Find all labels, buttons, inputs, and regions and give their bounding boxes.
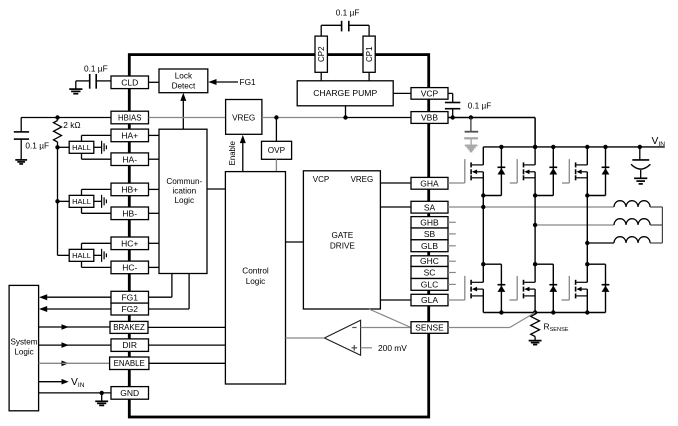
transistor low-side B (NMOS) <box>517 264 535 312</box>
svg-text:HB-: HB- <box>122 208 137 218</box>
svg-text:GHC: GHC <box>420 256 439 266</box>
svg-text:CP1: CP1 <box>365 46 374 62</box>
pin HA- <box>111 153 149 166</box>
block System Logic <box>9 285 38 410</box>
node junction hall2 tap <box>55 199 59 203</box>
svg-text:VREG: VREG <box>351 175 374 184</box>
svg-text:HA+: HA+ <box>121 131 138 141</box>
wire ENABLE left with arrow (gray) <box>39 361 110 367</box>
pin HB- <box>111 207 149 220</box>
wire GHA gate lead (gray) <box>448 182 465 184</box>
transistor high-side A (NMOS) <box>465 147 484 196</box>
svg-text:HALL: HALL <box>72 251 91 260</box>
label VIN right <box>652 136 666 148</box>
svg-text:Control: Control <box>242 266 269 275</box>
hall supply bus vertical <box>57 147 59 255</box>
svg-text:CLD: CLD <box>121 77 138 87</box>
node junction low diode B bottom <box>551 310 555 314</box>
pin GHB <box>411 217 448 228</box>
wire control logic to gate drive <box>286 241 304 243</box>
op-amp current comparator <box>324 320 360 355</box>
wire comparator output to control logic <box>286 337 325 339</box>
inductor motor coil phase C <box>614 237 650 243</box>
wire charge pump to VCP pin <box>393 92 411 94</box>
svg-text:ication: ication <box>172 187 196 196</box>
pin VBB <box>411 112 448 124</box>
diode high-side B <box>549 147 557 196</box>
wire ENABLE to control logic <box>149 362 226 364</box>
stub wire right of GHB <box>448 221 456 223</box>
hall sensor 2 (HB) with sideways ground <box>58 189 112 213</box>
pin GLA <box>411 294 448 306</box>
svg-text:CP2: CP2 <box>317 46 326 62</box>
wire HA+ to communication logic <box>149 134 160 136</box>
svg-text:VCP: VCP <box>421 89 439 99</box>
node junction rail-chargepump <box>343 115 347 119</box>
wire SENSE to sense node (gray) <box>448 313 535 328</box>
pin VCP <box>411 88 448 100</box>
phase A vertical wire <box>482 196 484 265</box>
svg-text:Detect: Detect <box>172 82 196 91</box>
svg-text:BRAKEZ: BRAKEZ <box>113 323 145 332</box>
svg-text:2 kΩ: 2 kΩ <box>63 120 80 130</box>
svg-text:GHB: GHB <box>420 217 439 227</box>
phase C vertical wire <box>586 196 588 265</box>
pin CP2 (rotated label) <box>315 36 327 72</box>
svg-text:Commun-: Commun- <box>166 177 202 186</box>
block Lock Detect <box>159 69 208 93</box>
pin GLB <box>411 240 448 252</box>
svg-text:CHARGE PUMP: CHARGE PUMP <box>313 88 377 98</box>
svg-text:Logic: Logic <box>246 277 266 286</box>
ground (HBIAS cap) <box>15 160 27 164</box>
pin HBIAS <box>111 111 149 124</box>
stub wire right of GLB <box>448 245 456 247</box>
wire HA- to communication logic <box>149 158 160 160</box>
transistor low-side C (NMOS) <box>569 264 587 312</box>
svg-text:GND: GND <box>120 388 139 398</box>
pin HA+ <box>111 129 149 142</box>
hall sensor 3 (HC) with sideways ground <box>58 243 112 267</box>
wire HC- to communication logic <box>149 266 160 268</box>
transistor high-side B (NMOS) <box>517 147 535 196</box>
wire FG2 to communication logic <box>149 274 190 310</box>
svg-text:GLA: GLA <box>421 295 438 305</box>
chip outline (thick boundary of driver IC) <box>129 55 428 417</box>
pin HC- <box>111 261 149 274</box>
diode low-side B <box>549 264 557 312</box>
svg-text:FG1: FG1 <box>240 77 257 87</box>
reference 200 mV at comparator plus <box>361 343 408 353</box>
svg-text:GLB: GLB <box>421 241 438 251</box>
phase B vertical wire <box>534 196 536 265</box>
wire SA bus to motor (gray) <box>448 206 614 208</box>
wire communication logic to control logic <box>207 188 225 190</box>
capacitor 0.1uF at HBIAS <box>14 118 49 160</box>
stub wire right of GLC <box>448 283 456 285</box>
svg-text:FG2: FG2 <box>121 304 138 314</box>
svg-text:GATE: GATE <box>332 231 354 240</box>
node junction rail-OVP <box>274 115 278 119</box>
VBB top rail of bridge <box>483 146 665 148</box>
block Communication Logic <box>159 129 207 273</box>
wire VBB to bridge <box>448 118 535 147</box>
svg-text:HBIAS: HBIAS <box>118 113 141 122</box>
node junction hall1 tap <box>55 145 59 149</box>
wire BRAKEZ to control logic <box>148 326 225 328</box>
svg-text:DIR: DIR <box>122 340 137 350</box>
wire HB- to communication logic <box>149 212 160 214</box>
transistor low-side A (NMOS) <box>465 264 484 312</box>
svg-text:HC-: HC- <box>122 263 137 273</box>
wire SC to motor <box>587 242 614 244</box>
wire DIR to control logic <box>149 344 226 346</box>
svg-text:VREG: VREG <box>232 113 255 122</box>
pin SENSE <box>411 322 448 334</box>
svg-text:0.1 µF: 0.1 µF <box>468 101 492 111</box>
svg-text:VCP: VCP <box>313 175 329 184</box>
pin CP1 (rotated label) <box>363 36 375 72</box>
gray rail VREG to charge pump junction <box>262 117 346 119</box>
diode high-side A <box>498 147 506 196</box>
pin GHC <box>411 256 448 267</box>
stub gate low-side B (gray) <box>509 299 517 301</box>
svg-text:GLC: GLC <box>421 280 438 290</box>
resistor RSENSE with label and ground <box>529 313 569 345</box>
wire FG1 to communication logic <box>149 274 172 298</box>
svg-text:HC+: HC+ <box>121 238 138 248</box>
node junction phase C source on rail <box>585 310 589 314</box>
node junction low diode C tap <box>585 262 589 266</box>
svg-text:0.1 µF: 0.1 µF <box>25 141 49 151</box>
svg-text:OVP: OVP <box>268 146 286 155</box>
pin GND <box>111 387 149 400</box>
capacitor 0.1uF at CLD with ground <box>76 64 111 90</box>
svg-text:0.1 µF: 0.1 µF <box>84 64 108 74</box>
node junction diode A top <box>499 145 503 149</box>
diode low-side A <box>498 264 506 312</box>
capacitor VBB decoupling (gray) with ground <box>464 118 478 152</box>
pin HB+ <box>111 183 149 196</box>
pin FG2 <box>111 303 149 315</box>
block CHARGE PUMP <box>297 81 393 106</box>
inductor motor coil phase A <box>614 201 650 207</box>
svg-text:HA-: HA- <box>122 154 137 164</box>
wire VIN input with arrow and label <box>39 377 85 389</box>
svg-text:200 mV: 200 mV <box>378 343 407 353</box>
wire HBIAS left rail <box>21 117 111 119</box>
svg-text:System: System <box>11 337 38 346</box>
wire to low diode A <box>483 263 501 265</box>
wire comparator minus to SENSE <box>361 327 411 329</box>
diode low-side C <box>602 264 610 312</box>
stub wire right of SC <box>448 272 456 274</box>
wire to low diode C <box>587 263 605 265</box>
wire rail to OVP <box>275 118 277 142</box>
ground (CLD cap) <box>69 89 82 94</box>
svg-text:SB: SB <box>424 229 436 239</box>
node junction gray cap on VBB <box>469 115 473 119</box>
stub wire right of GHC <box>448 260 456 262</box>
node junction low diode A tap <box>481 262 485 266</box>
stub gate high-side B (gray) <box>510 182 517 184</box>
node junction low diode B tap <box>533 262 537 266</box>
wire DIR left with arrow <box>39 342 111 348</box>
node junction VBB feed <box>533 145 537 149</box>
node junction HBIAS-resistor <box>55 115 59 119</box>
svg-text:0.1 µF: 0.1 µF <box>336 7 360 17</box>
wire to low diode B <box>535 263 553 265</box>
wire charge pump bottom to VREG rail <box>345 106 347 118</box>
pin CLD <box>111 76 149 89</box>
svg-text:Logic: Logic <box>14 348 33 357</box>
wire CLD to lock detect <box>149 81 160 83</box>
node junction VCP cap on VBB <box>451 115 455 119</box>
capacitor 0.1uF between CP1 and CP2 with wires <box>321 7 369 36</box>
pin ENABLE <box>110 357 149 370</box>
pin HC+ <box>111 237 149 250</box>
svg-text:FG1: FG1 <box>121 292 138 302</box>
wire CP1 to charge pump <box>368 72 370 81</box>
block GATE DRIVE with VCP VREG labels <box>303 171 380 309</box>
wire GLA gate lead (gray) <box>448 299 465 301</box>
arrow communication logic to lock detect <box>180 93 186 130</box>
capacitor 0.1uF VCP to VBB <box>445 93 491 117</box>
pin DIR <box>111 339 149 352</box>
wire gate drive to SA <box>380 206 411 208</box>
inductor motor coil phase B <box>614 219 650 225</box>
pin SC <box>411 267 448 279</box>
svg-text:DRIVE: DRIVE <box>330 241 356 250</box>
phase node A <box>481 193 501 197</box>
block VREG <box>226 100 262 135</box>
svg-text:GHA: GHA <box>420 178 439 188</box>
motor star connection wires <box>650 207 662 243</box>
stub gate high-side C (gray) <box>562 182 569 184</box>
svg-text:Enable: Enable <box>228 141 237 165</box>
wire FG1 to system logic with arrow <box>39 294 111 300</box>
node junction gnd tap <box>100 391 104 395</box>
node junction SB on phase B <box>533 223 537 227</box>
phase node C <box>585 193 605 197</box>
wire HB+ to communication logic <box>149 188 160 190</box>
node junction low diode A bottom <box>499 310 503 314</box>
block Control Logic <box>225 172 285 384</box>
svg-text:SENSE: SENSE <box>415 323 444 333</box>
wire gate drive to GHA <box>380 182 411 184</box>
enable arrow control logic to VREG with rotated label <box>228 135 246 172</box>
gray rail HBIAS to VREG <box>149 117 226 119</box>
hall sensor 1 (HA) with sideways ground <box>58 135 112 159</box>
svg-text:HALL: HALL <box>72 143 91 152</box>
svg-text:VBB: VBB <box>421 113 438 123</box>
node junction SC on phase C <box>585 241 589 245</box>
node junction SA on phase A <box>481 205 485 209</box>
node junction diode B top <box>551 145 555 149</box>
wire rail to VBB pin <box>346 117 412 119</box>
wire FG1 into lock detect with arrow <box>208 77 256 87</box>
pin GLC <box>411 279 448 291</box>
wire SB to motor (gray) <box>535 224 614 226</box>
wire GND to system logic <box>39 392 111 394</box>
node junction phase B drain on rail <box>533 145 537 149</box>
svg-text:SC: SC <box>424 268 436 278</box>
pin SB <box>411 228 448 240</box>
svg-text:ENABLE: ENABLE <box>114 359 145 368</box>
bridge bottom rail <box>483 312 605 314</box>
block OVP <box>262 141 292 159</box>
capacitor VIN bulk (polarized) with ground <box>631 147 650 184</box>
wire BRAKEZ left with arrow <box>39 324 110 330</box>
svg-text:Lock: Lock <box>175 72 193 81</box>
wire OVP to control logic (gray) <box>275 159 277 171</box>
stub wire right of SB <box>448 233 456 235</box>
pin GHA <box>411 177 448 189</box>
ground (GND pin) <box>95 393 108 406</box>
pin BRAKEZ <box>110 321 148 333</box>
pin SA <box>411 201 448 213</box>
wire FG2 to system logic with arrow <box>39 306 111 312</box>
wire CP2 to charge pump <box>320 72 322 81</box>
svg-text:SA: SA <box>424 202 436 212</box>
svg-text:HB+: HB+ <box>121 185 138 195</box>
svg-text:Logic: Logic <box>175 196 195 205</box>
resistor 2 kOhm <box>54 118 81 148</box>
node junction sense node <box>533 310 537 314</box>
pin FG1 <box>111 291 149 303</box>
node junction VIN cap <box>638 145 642 149</box>
stub gate low-side C (gray) <box>562 299 570 301</box>
node junction diode C top <box>603 145 607 149</box>
wire HC+ to communication logic <box>149 242 160 244</box>
svg-text:HALL: HALL <box>72 197 91 206</box>
phase node B <box>533 193 553 197</box>
wire gate drive to SENSE (diagonal) <box>369 309 411 328</box>
wire gate drive to GLA <box>380 299 411 301</box>
diode high-side C <box>602 147 610 196</box>
node junction phase C drain on rail <box>585 145 589 149</box>
transistor high-side C (NMOS) <box>569 147 587 196</box>
